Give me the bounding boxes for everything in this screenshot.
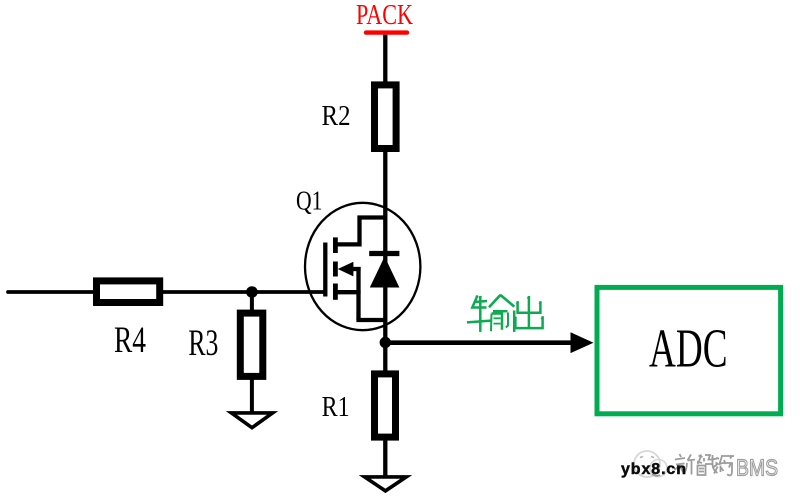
svg-text:PACK: PACK (356, 0, 413, 31)
svg-text:R1: R1 (322, 391, 350, 423)
svg-text:BMS: BMS (736, 455, 778, 481)
svg-text:ybx8.cn: ybx8.cn (621, 461, 687, 478)
svg-text:Q1: Q1 (296, 185, 323, 216)
svg-text:R2: R2 (322, 100, 351, 132)
svg-text:R4: R4 (114, 320, 146, 361)
svg-text:ADC: ADC (649, 317, 728, 378)
svg-text:R3: R3 (188, 323, 218, 364)
